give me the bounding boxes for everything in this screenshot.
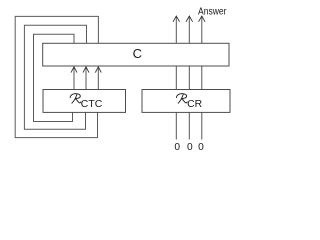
wire R_CTC to C arrow 3 (95, 67, 101, 90)
input wire 3 below R_CR (201, 112, 203, 139)
wire R_CR to C 1 (175, 66, 177, 90)
svg-text:0: 0 (187, 142, 193, 153)
svg-text:Answer: Answer (198, 7, 227, 18)
svg-text:0: 0 (198, 142, 204, 153)
answer arrow 1 from C top (173, 16, 180, 43)
svg-text:CTC: CTC (81, 99, 103, 110)
box R_CR (142, 90, 230, 113)
label R_CR (176, 94, 202, 111)
label R_CTC (70, 94, 103, 111)
wire R_CTC to C arrow 1 (71, 67, 77, 90)
answer arrow 3 from C top (199, 16, 206, 43)
feedback wire loop 3 (outer) (15, 16, 98, 137)
wire R_CR to C 3 (201, 66, 203, 90)
feedback wire loop 1 (inner, C top to R_CTC bottom) (34, 34, 75, 121)
wire R_CR to C 2 (188, 66, 190, 90)
wire R_CTC to C arrow 2 (83, 67, 89, 90)
svg-text:C: C (133, 46, 142, 61)
input wire 1 below R_CR (175, 112, 177, 139)
box R_CTC (43, 90, 126, 113)
box C (43, 43, 229, 66)
svg-text:0: 0 (174, 142, 180, 153)
svg-text:CR: CR (187, 99, 202, 110)
feedback wire loop 2 (middle) (24, 25, 86, 129)
answer arrow 2 from C top (186, 16, 193, 43)
input wire 2 below R_CR (188, 112, 190, 139)
